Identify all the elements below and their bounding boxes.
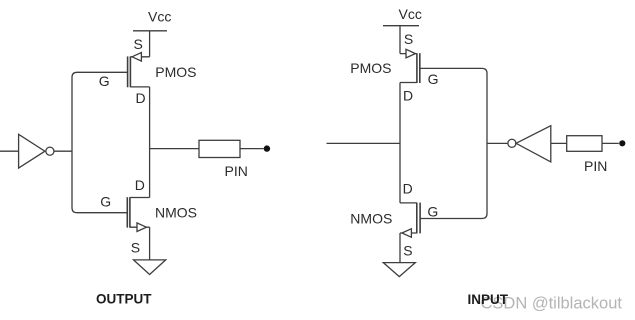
wire NMOS source to ground (149, 227, 151, 260)
pin label S (input PMOS source) (404, 31, 413, 47)
svg-text:D: D (403, 180, 413, 196)
wire resistor to pad (240, 148, 264, 150)
ground (input side) (383, 263, 415, 277)
wire resistor to pad (input side) (602, 142, 619, 144)
pin label S (input NMOS source) (403, 243, 412, 259)
svg-text:D: D (135, 177, 145, 193)
transistor NMOS (output driver) (127, 197, 149, 231)
svg-text:PMOS: PMOS (350, 60, 391, 76)
svg-text:S: S (131, 239, 140, 255)
node pad terminal (input PIN) (619, 140, 625, 146)
node label INPUT (468, 292, 509, 307)
node label OUTPUT (96, 292, 152, 307)
wire gate bus (PMOS gate to NMOS gate, left side) (72, 72, 128, 212)
value label PIN (input) (584, 158, 607, 174)
resistor PIN (output series resistor) (199, 140, 240, 157)
svg-text:S: S (134, 36, 143, 52)
svg-text:G: G (100, 194, 111, 210)
power Vcc rail bar (output side) (133, 30, 167, 32)
pin label G (output PMOS gate) (99, 73, 110, 89)
svg-text:PMOS: PMOS (155, 64, 196, 80)
svg-text:G: G (427, 203, 438, 219)
svg-text:PIN: PIN (225, 163, 248, 179)
pin label S (output PMOS source) (134, 36, 143, 52)
transistor NMOS (input side) (400, 203, 420, 238)
pin label D (input PMOS drain) (403, 87, 413, 103)
power Vcc label (output side) (148, 9, 171, 25)
svg-text:Vcc: Vcc (399, 6, 422, 22)
pin label S (output NMOS source) (131, 239, 140, 255)
transistor PMOS (input side) (400, 49, 420, 83)
pin label D (output NMOS drain) (135, 177, 145, 193)
op-amp inverter U1 (output side) (0, 134, 72, 168)
value label NMOS (output) (155, 205, 197, 221)
value label PMOS (output) (155, 64, 196, 80)
resistor PIN (input series resistor) (567, 136, 602, 152)
watermark CSDN (481, 295, 623, 313)
wire input node to chip internal (327, 142, 401, 144)
pin label G (output NMOS gate) (100, 194, 111, 210)
node pad terminal (output PIN) (264, 145, 270, 151)
op-amp inverter U2 (input side) (487, 126, 567, 162)
wire Vcc to PMOS source (input side) (399, 26, 401, 54)
wire PMOS drain to NMOS drain (input node) (399, 83, 401, 203)
power Vcc label (input side) (399, 6, 422, 22)
svg-text:D: D (136, 90, 146, 106)
svg-text:INPUT: INPUT (468, 292, 509, 307)
value label PMOS (input) (350, 60, 391, 76)
ground (output side) (134, 260, 166, 275)
wire gate bus (input side, right) (420, 68, 487, 218)
svg-text:NMOS: NMOS (350, 210, 392, 226)
pin label G (input NMOS gate) (427, 203, 438, 219)
svg-text:D: D (403, 87, 413, 103)
transistor PMOS (output driver) (128, 53, 150, 88)
wire Vcc to PMOS source (149, 31, 151, 57)
svg-text:S: S (404, 31, 413, 47)
pin label G (input PMOS gate) (428, 71, 439, 87)
svg-text:NMOS: NMOS (155, 205, 197, 221)
svg-text:G: G (428, 71, 439, 87)
wire PMOS drain to NMOS drain (output node) (149, 87, 151, 198)
value label PIN (output) (225, 163, 248, 179)
svg-text:PIN: PIN (584, 158, 607, 174)
power Vcc rail bar (input side) (383, 25, 419, 27)
pin label D (input NMOS drain) (403, 180, 413, 196)
svg-text:OUTPUT: OUTPUT (96, 292, 152, 307)
wire NMOS source to ground (input side) (399, 233, 401, 263)
svg-text:Vcc: Vcc (148, 9, 171, 25)
svg-text:G: G (99, 73, 110, 89)
svg-text:S: S (403, 243, 412, 259)
wire output node to resistor (150, 148, 199, 150)
value label NMOS (input) (350, 210, 392, 226)
pin label D (output PMOS drain) (136, 90, 146, 106)
